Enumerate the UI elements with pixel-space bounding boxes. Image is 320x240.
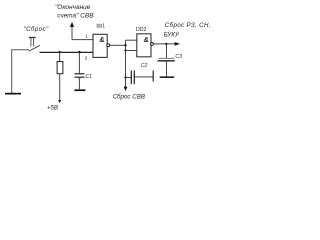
svg-text:DD2: DD2 bbox=[136, 27, 146, 33]
svg-text:C1: C1 bbox=[85, 74, 92, 80]
svg-text:"Окончание: "Окончание bbox=[55, 4, 91, 11]
svg-text:1: 1 bbox=[85, 34, 88, 40]
svg-text:&: & bbox=[144, 37, 149, 44]
svg-text:Сброс СВВ: Сброс СВВ bbox=[113, 94, 145, 101]
svg-text:C2: C2 bbox=[141, 63, 148, 69]
svg-text:bb1: bb1 bbox=[97, 23, 106, 29]
svg-text:Сброс РЗ, СН,: Сброс РЗ, СН, bbox=[165, 22, 211, 29]
svg-text:C3: C3 bbox=[175, 54, 182, 60]
svg-text:&: & bbox=[99, 37, 104, 44]
svg-text:2: 2 bbox=[85, 55, 88, 61]
svg-text:БУКУ: БУКУ bbox=[164, 32, 180, 39]
svg-text:+5В: +5В bbox=[47, 106, 58, 112]
svg-text:"Сброс": "Сброс" bbox=[24, 26, 50, 33]
svg-text:счета" СВВ: счета" СВВ bbox=[57, 13, 94, 20]
